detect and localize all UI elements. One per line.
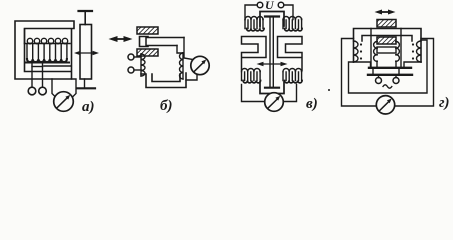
separator dot [328, 89, 330, 91]
short limb stubs to yoke (figure g) [377, 62, 396, 67]
movable core hatched block top (figure g) [377, 20, 396, 28]
lower-left winding (figure v) [242, 68, 262, 82]
central limb / armature rod (figure v) [270, 18, 273, 88]
wire: right coil to yoke bar step (figure g) [404, 62, 421, 67]
armature base support (figure a) [77, 79, 95, 88]
core section rect (figure g) [377, 47, 396, 53]
far-right winding (figure g) [412, 41, 421, 62]
winding W1 on core (figure a): top wire with turn loops [25, 29, 71, 45]
AC source tilde symbol (figure g) [383, 85, 392, 88]
yoke C-bracket (figure b) [140, 37, 149, 47]
wire: outer loop right (figure g) [395, 39, 434, 107]
secondary winding W2 (figure b) [180, 52, 184, 79]
primary winding W1 (figure b) [141, 53, 146, 76]
wire: left coil to yoke bar step (figure g) [354, 62, 371, 67]
wire: left supply lead (figure v) [245, 5, 257, 20]
armature plunger (figure a) [80, 25, 92, 80]
top yoke П-frame (figure v) [260, 12, 284, 27]
galvanometer G2 (figure b) [191, 56, 209, 74]
terminal binding post 1 (figure a) [28, 87, 36, 95]
fixed yoke hatched block top (figure b) [137, 27, 158, 34]
top yoke T-bar (figure v) [265, 15, 279, 17]
armature T-handle (figure a) [79, 11, 93, 25]
motion double arrow through armature (figure a) [74, 51, 99, 56]
bottom yoke channel (figure b) [141, 73, 186, 88]
bottom yoke bar 1 (figure g) [369, 67, 411, 69]
wire: coil lead right to terminal (figure a) [42, 62, 44, 87]
wire: right rail to galvanometer (figure v) [283, 85, 296, 102]
center-left winding (figure g) [374, 41, 378, 63]
movable core hatched block inside window (figure g) [377, 37, 396, 44]
motion double arrow (figure v) [257, 62, 288, 66]
core C-shaped magnetic circuit (figure a) [15, 21, 74, 79]
step stubs between yoke bars (figure g) [373, 69, 399, 74]
bold motion double arrow (figure b core) [109, 36, 133, 42]
lower-right winding (figure v) [283, 68, 303, 82]
wire: coil lead left to terminal (figure a) [31, 62, 33, 87]
wire: galvanometer bottom to yoke (figure b) [186, 74, 197, 81]
wire: terminal 1 to primary (figure b) [134, 56, 141, 58]
pole piece right with notch (figure v) [278, 37, 303, 71]
galvanometer G4 (figure g) [376, 96, 394, 114]
bold motion double arrow (figure g) [375, 10, 396, 15]
bottom yoke T-bar (figure v) [265, 87, 279, 89]
supply terminal left (figure v) [257, 2, 263, 8]
center column limbs (figure g) [371, 29, 401, 68]
upper-left winding (figure v) [245, 17, 264, 31]
svg-text:б): б) [160, 98, 172, 114]
svg-text:U: U [265, 0, 275, 12]
movable core rod (figure b) [146, 38, 184, 46]
wire: outer loop left with galvanometer (figure g) [342, 39, 377, 107]
wire: right lead to galvanometer (figure a) [72, 79, 77, 98]
supply terminal right (figure v) [278, 2, 284, 8]
bottom yoke bar 2 (figure g) [368, 74, 412, 76]
fixed yoke hatched block bottom (figure b) [137, 49, 158, 56]
upper-right winding (figure v) [283, 16, 303, 30]
pole piece left with notch (figure v) [242, 37, 267, 71]
output terminal 2 (figure g) [393, 76, 399, 84]
svg-text:а): а) [82, 99, 95, 115]
bottom yoke ⊔-frame (figure v) [260, 82, 284, 94]
terminal 2 (figure b) [128, 67, 134, 73]
terminal 1 (figure b) [128, 54, 134, 60]
galvanometer G3 (figure v) [265, 93, 284, 112]
galvanometer G1 (figure a) [54, 92, 74, 112]
svg-text:г): г) [439, 95, 450, 111]
wire: terminal 2 to primary (figure b) [134, 69, 141, 71]
inner window of core (figure g) [362, 36, 412, 42]
svg-text:в): в) [306, 96, 318, 112]
center-right winding (figure g) [395, 41, 399, 63]
wire: left rail to galvanometer (figure v) [242, 85, 265, 102]
terminal binding post 2 (figure a) [39, 87, 47, 95]
wire: right supply lead (figure v) [284, 5, 293, 20]
winding W1 bottom turn arcs (figure a) [26, 59, 71, 67]
wire: rod top edge down to galvanometer (figure b) [184, 38, 193, 60]
output terminal 1 (figure g) [376, 76, 382, 84]
far-left winding (figure g) [354, 41, 363, 62]
wire: rod bottom edge down to secondary coil (figure b) [177, 46, 183, 54]
outer frame of core (figure g) [354, 29, 422, 63]
winding W1 vertical turn legs (figure a) [27, 44, 67, 59]
wire: left lead to galvanometer (figure a) [52, 79, 56, 98]
wire: inner loop (figure g) [349, 40, 428, 93]
